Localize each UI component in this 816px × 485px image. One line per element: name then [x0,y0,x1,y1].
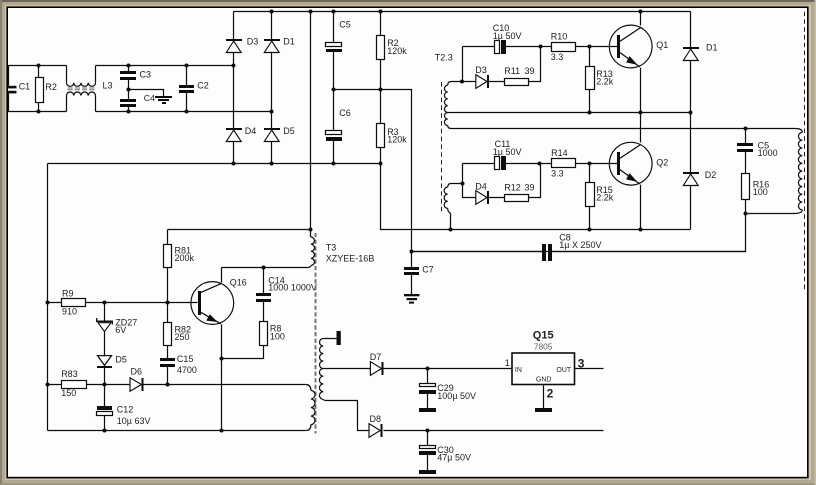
junction D5-D6-C12 [103,383,107,387]
T3 drive winding [306,385,315,431]
junction T3 primary top [309,228,313,232]
label R11 39 [504,66,534,76]
svg-text:C15: C15 [177,354,194,364]
junction D1 top rail [270,10,274,14]
junction T2 drive winding bottom [449,228,453,232]
label Q1 [656,40,668,50]
junction Q16 emitter bottom [220,429,224,433]
svg-text:T2.3: T2.3 [435,52,453,62]
label R2 bleeder [387,38,407,56]
svg-text:100: 100 [270,331,285,341]
diode D5 (bridge) [264,128,280,142]
svg-text:2.2k: 2.2k [596,193,614,203]
junction Q1 collector rail [639,10,643,14]
capacitor C5 (output) [737,129,753,174]
wire left sense column [47,164,49,431]
svg-text:910: 910 [62,307,77,317]
junction D5 bottom [270,162,274,166]
svg-text:Q2: Q2 [656,157,668,167]
label D7 [370,352,382,362]
wire AC line top-right of L3 [96,65,234,67]
wire Q1 base [590,46,618,48]
T2 winding C (Q2 feedback) [444,184,462,230]
junction C12 bottom [103,429,107,433]
capacitor C1 [8,66,17,112]
svg-text:250: 250 [175,332,190,342]
label R16 [753,179,770,197]
label R3 bleeder [387,127,407,145]
label T3 [326,242,375,263]
label R81 [175,246,195,264]
svg-text:7805: 7805 [534,341,553,351]
svg-text:R10: R10 [551,31,568,41]
shield connection [323,331,341,345]
junction C11-R14 [538,162,542,166]
transformer T2 secondary core [804,12,806,291]
label D3 bridge [247,36,259,46]
transformer T2 core [441,82,443,212]
svg-text:R11: R11 [504,66,520,76]
L3 core dashes [68,88,95,90]
label C5 bulk [339,20,351,30]
wire Q15 gnd pin [543,386,545,409]
svg-text:R83: R83 [61,369,78,379]
capacitor C8 [542,244,552,261]
junction AC2-bridge [270,110,274,114]
junction R15 bottom [588,228,592,232]
resistor R2 (bleeder) with wires [377,12,385,90]
resistor R14 [540,159,590,168]
junction R10-Q1 base [588,45,592,49]
capacitor C2 [179,66,194,112]
junction R14-Q2 base [588,162,592,166]
junction C3-C4 midpoint [127,88,131,92]
diode D1 (output) with wires [683,12,699,113]
label C7 [422,265,434,275]
T2 winding B (to output cap) [444,113,455,129]
label L3 [103,80,113,90]
wire bridge bottom rail [48,163,381,165]
inductor L3 lower winding [67,92,96,112]
junction C7 node [410,250,414,254]
svg-text:D1: D1 [283,36,295,46]
capacitor C12 [97,385,113,431]
junction R3 bottom [379,162,383,166]
svg-text:R2: R2 [45,82,57,92]
svg-text:120k: 120k [387,46,407,56]
junction R2 top [37,64,41,68]
svg-text:Q16: Q16 [230,277,247,287]
label C2 [197,81,209,91]
svg-text:C2: C2 [197,81,209,91]
junction T2 feedback A [460,80,464,84]
label D1 output [706,43,718,53]
transistor Q2 collector [620,113,641,159]
svg-text:OUT: OUT [556,367,572,374]
resistor R15 with wires [586,164,595,230]
svg-text:C4: C4 [144,93,155,103]
diode D4 (bridge) [226,128,242,142]
junction R13-emitter rail [588,111,592,115]
wire C10 branch [463,47,541,82]
junction C5 top [332,10,336,14]
label R15 [596,185,614,203]
wire HV feed to T3 [310,12,312,230]
diode D2 with wires [683,113,699,230]
junction C4 bottom [127,110,131,114]
junction R9-ZD27 [103,301,107,305]
junction C5-C6 mid [332,88,336,92]
wire secondary tap to D7 [323,368,370,370]
svg-text:Q15: Q15 [533,329,554,341]
label D5 clamp [115,355,127,365]
label R82 [175,325,192,343]
wire R81 feed rail [168,229,311,231]
transistor Q16 base bar [198,291,201,315]
diode D1 (bridge) [264,39,280,53]
svg-text:D4: D4 [245,126,257,136]
resistor R13 with wires [586,47,595,113]
label C30 [437,445,471,463]
wire base rail [48,302,198,304]
capacitor C7 [404,252,419,295]
regulator Q15 box [512,353,575,385]
svg-text:1µ 50V: 1µ 50V [493,147,522,157]
svg-text:R14: R14 [551,148,568,158]
junction C3 top [127,64,131,68]
T3 primary winding [307,230,314,268]
label C11 [493,139,522,157]
label D8 [370,414,382,424]
capacitor C15 [160,358,175,385]
svg-text:IN: IN [515,367,522,374]
ground (input filter) [155,96,172,104]
label C15 [177,354,197,375]
transistor Q16 emitter [200,312,222,431]
junction C2 top [185,64,189,68]
junction R2-R3 mid [379,88,383,92]
wire Q2 base [590,163,618,165]
resistor R10 [541,43,590,52]
svg-text:10µ 63V: 10µ 63V [117,416,151,426]
svg-text:D3: D3 [247,36,259,46]
wire C8 rail gaps [412,251,746,253]
ground (C7) [404,294,420,304]
wire Q15 output [575,368,604,370]
svg-text:C12: C12 [117,404,134,414]
transistor Q16 collector [200,268,222,293]
capacitor C29 [419,369,436,409]
svg-text:3: 3 [578,356,585,370]
label pin 2 [547,386,554,400]
capacitor C11 [495,156,507,170]
junction Q2 emitter rail [639,228,643,232]
svg-text:C1: C1 [19,82,31,92]
transistor Q1 base bar [617,35,620,58]
wire drive winding top rail [168,384,306,386]
svg-text:120k: 120k [387,134,407,144]
svg-text:200k: 200k [175,253,195,263]
ground (C29) [419,408,436,412]
label pin 3 [578,356,585,370]
junction C30 top [426,429,430,433]
capacitor C14 [256,268,271,322]
wire +HV top rail [234,11,691,13]
inductor L3 upper winding [67,66,96,87]
diode D6 [105,378,168,391]
svg-text:1: 1 [505,358,510,369]
resistor R2 (input) [36,66,44,112]
resistor R8 [222,322,268,359]
label D5 bridge [283,126,295,136]
svg-text:D1: D1 [706,43,718,53]
svg-text:39: 39 [525,182,535,192]
svg-text:R9: R9 [62,289,74,299]
svg-text:GND: GND [536,376,552,383]
capacitor C3 [120,66,136,90]
label GND [536,376,552,383]
svg-text:T3: T3 [326,242,337,252]
label R8 [270,324,285,342]
resistor R16 [742,174,750,214]
junction C6 bottom [332,162,336,166]
label R13 [596,69,614,87]
diode D8 [369,424,383,438]
junction R2 bleeder top [379,10,383,14]
transistor Q2 circle [609,142,652,185]
label D1 bridge [283,36,295,46]
svg-text:D6: D6 [131,366,143,376]
junction D6-C15 [166,383,170,387]
label Q16 [230,277,247,287]
svg-text:D4: D4 [475,181,487,191]
resistor R12 [505,195,529,202]
svg-text:1000 1000V: 1000 1000V [268,283,317,293]
svg-text:C5: C5 [339,20,351,30]
label R2 input [45,82,57,92]
svg-text:1000: 1000 [758,148,778,158]
label R83 [61,369,78,398]
svg-text:D8: D8 [370,414,382,424]
resistor R9 [62,299,86,307]
svg-text:6V: 6V [115,325,126,335]
svg-text:D7: D7 [370,352,382,362]
junction T2 feedback B [461,182,465,186]
label IN [515,367,522,374]
svg-text:D5: D5 [115,355,127,365]
wire AC line top-left [8,65,67,67]
label D4 bridge [245,126,257,136]
svg-text:Q1: Q1 [656,40,668,50]
resistor R81 with wires [164,230,172,303]
svg-text:C7: C7 [422,265,434,275]
svg-text:C6: C6 [339,108,351,118]
capacitor C6 (bulk) [326,131,343,142]
svg-text:3.3: 3.3 [551,52,564,62]
wire low rail (D8) [384,430,604,432]
diode D3 (bridge) [226,39,242,53]
junction R2 bottom [37,110,41,114]
wire winding B to output [455,128,796,130]
label R9 [62,289,77,317]
junction Q1E-Q2C [639,111,643,115]
junction AC1-bridge [232,64,236,68]
wire AC line bottom-right of L3 [96,111,272,113]
label pin 1 [505,358,510,369]
wire snubber bottom [746,213,795,215]
transistor Q2 emitter [620,170,641,230]
wire D3-R11 branch [462,47,541,82]
wire C11 branch [463,164,540,184]
junction R83 left [46,383,50,387]
svg-text:150: 150 [61,388,76,398]
svg-text:XZYEE-16B: XZYEE-16B [326,254,375,264]
svg-text:D3: D3 [475,65,487,75]
capacitor C30 [419,431,436,471]
svg-text:R12: R12 [504,182,521,192]
label C3 [140,69,152,79]
transistor Q1 emitter [620,53,641,113]
capacitor C10 [495,40,507,54]
junction base rail left [46,301,50,305]
capacitor C4 [120,90,136,112]
junction output cap C5 top [744,127,748,131]
svg-text:D2: D2 [705,170,717,180]
label T2.3 [435,52,453,62]
transformer T3 core [315,233,317,434]
ground (Q15) [535,408,552,412]
junction C29 top [426,367,430,371]
resistor R3 (bleeder) with wires [377,90,385,164]
svg-text:D5: D5 [283,126,295,136]
label ZD27 [115,317,137,335]
resistor R82 with wires [164,303,172,359]
wire C5-C6 column [333,12,335,164]
transistor Q1 collector [620,12,641,42]
transistor Q16 circle [191,282,234,325]
wire D4-R12 branch [463,164,541,198]
label D4 feedback [475,181,487,191]
ground (C30) [419,470,436,474]
junction D1 anode rail [689,111,693,115]
wire R3 bottom to emitter rail [381,164,691,230]
label 7805 [534,341,553,351]
label D6 [131,366,143,376]
wire R83 rail [48,384,105,386]
svg-text:47µ 50V: 47µ 50V [437,453,471,463]
label C4 [144,93,155,103]
junction C14 top [262,266,266,270]
label Q15 [533,329,554,341]
junction C2 bottom [185,110,189,114]
T3 secondary upper [319,339,327,401]
wire bridge left column [233,12,235,164]
label C10 [493,23,522,41]
junction emitter-R8 [220,357,224,361]
zener ZD27 with wires [96,303,113,356]
wire secondary bottom jog [327,401,369,431]
label C29 [437,383,476,401]
svg-text:C3: C3 [140,69,152,79]
wire collector rail [222,267,308,269]
label Q2 [656,157,668,167]
diode D3 (feedback) [476,75,489,89]
T2 secondary winding [794,129,802,214]
wire half-voltage mid rail [334,90,412,252]
junction R81-R82 [166,301,170,305]
svg-text:3.3: 3.3 [551,168,564,178]
junction HV feed top [309,10,313,14]
label R14 [551,148,568,179]
wire Q1 emitter rail [590,112,691,114]
junction C10-R10 [539,45,543,49]
label R12 39 [504,182,534,192]
svg-text:2.2k: 2.2k [596,77,614,87]
resistor R83 [62,381,87,389]
label D2 [705,170,717,180]
label C14 [268,275,317,292]
junction R16 bottom [744,212,748,216]
label C1 [19,82,31,92]
svg-text:1µ 50V: 1µ 50V [493,31,522,41]
transistor Q1 circle [609,25,652,68]
diode D4 (feedback) [476,191,489,205]
wire T2 tap to emitter rail [452,112,590,114]
svg-text:100: 100 [753,187,768,197]
svg-text:39: 39 [525,66,535,76]
wire bridge right column [271,12,273,164]
wire AC line bottom-left [8,111,67,113]
svg-text:1µ X 250V: 1µ X 250V [559,240,601,250]
label R10 [551,31,568,61]
svg-text:4700: 4700 [177,365,197,375]
resistor R11 [505,79,529,86]
diode D7 [370,362,511,376]
wire C3-C4 node to ground [129,90,164,97]
label C12 [117,404,151,426]
label C5 output [758,141,778,159]
capacitor C5 (bulk) [326,43,343,53]
wire snubber down to C8 rail [412,214,746,252]
transistor Q2 base bar [617,152,620,175]
junction D4 bottom [232,162,236,166]
svg-text:L3: L3 [103,80,113,90]
label D3 feedback [475,65,487,75]
svg-text:2: 2 [547,386,554,400]
label C8 [559,232,601,250]
svg-text:100µ 50V: 100µ 50V [437,391,476,401]
wire bottom return rail [48,430,306,432]
diode D5 (clamp) [97,356,112,385]
label OUT [556,367,572,374]
T2 winding A (Q1 feedback) [444,82,461,113]
label C6 bulk [339,108,351,118]
